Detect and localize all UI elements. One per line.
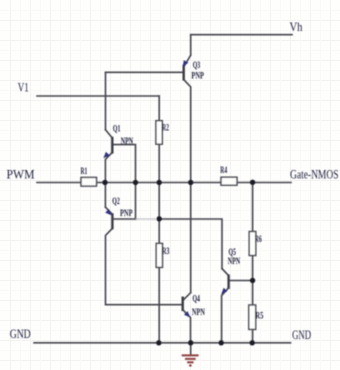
svg-text:NPN: NPN <box>192 307 205 317</box>
svg-text:R3: R3 <box>162 246 170 256</box>
svg-text:Gate-NMOS: Gate-NMOS <box>290 166 339 181</box>
svg-text:PWM: PWM <box>7 167 35 182</box>
svg-text:R1: R1 <box>81 166 88 176</box>
svg-text:Q1: Q1 <box>113 124 121 134</box>
svg-text:R6: R6 <box>255 234 262 244</box>
svg-text:R4: R4 <box>220 165 227 175</box>
svg-text:Q4: Q4 <box>193 293 201 303</box>
svg-text:Q2: Q2 <box>112 196 120 206</box>
svg-text:Q3: Q3 <box>193 60 201 70</box>
svg-text:NPN: NPN <box>121 136 134 146</box>
svg-text:PNP: PNP <box>191 70 204 80</box>
svg-text:GND: GND <box>10 326 31 341</box>
svg-text:R2: R2 <box>162 123 169 133</box>
svg-text:NPN: NPN <box>228 256 241 266</box>
svg-text:GND: GND <box>292 327 311 342</box>
svg-text:Vh: Vh <box>290 19 303 34</box>
svg-text:PNP: PNP <box>120 208 133 218</box>
svg-text:V1: V1 <box>18 80 29 95</box>
svg-text:R5: R5 <box>255 311 263 321</box>
